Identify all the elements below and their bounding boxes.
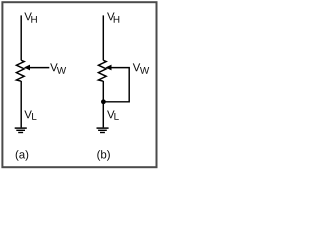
ground symbol (b) (97, 128, 109, 132)
wire: wiper return path (b) (104, 68, 129, 102)
node VW label (b) (133, 63, 149, 73)
wiper arrow (a) (24, 65, 30, 71)
junction dot (b) (101, 99, 106, 104)
node VW label (a) (50, 63, 66, 73)
node VH label (a) (24, 12, 36, 22)
wire: wiper lead (a) (30, 67, 50, 69)
wire: bottom lead circuit (b) (102, 81, 104, 127)
caption (a) (16, 150, 29, 161)
ground symbol (a) (15, 128, 27, 132)
potentiometer body (a) (16, 60, 24, 81)
wire: top lead circuit (a) (20, 15, 22, 60)
potentiometer body (b) (98, 60, 106, 81)
caption (b) (97, 150, 110, 161)
node VH label (b) (107, 12, 119, 22)
node VL label (a) (24, 110, 36, 119)
wire: bottom lead circuit (a) (20, 81, 22, 127)
node VL label (b) (107, 110, 119, 119)
wiper arrow (b) (105, 65, 111, 71)
wire: top lead circuit (b) (102, 15, 104, 60)
